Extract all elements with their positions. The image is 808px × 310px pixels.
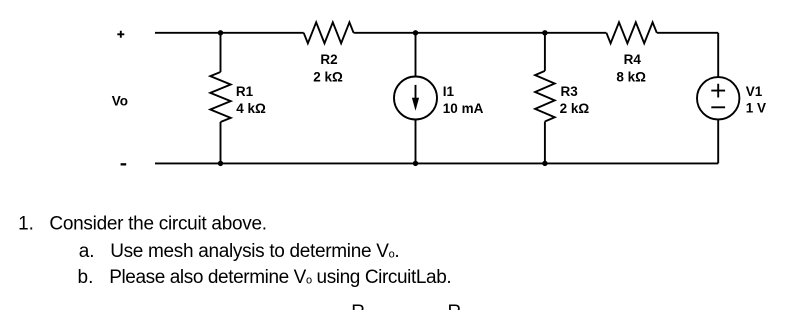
I1 arrow shaft — [415, 85, 417, 102]
junction dot I1 top — [413, 30, 418, 35]
junction dot R3 top — [542, 30, 547, 35]
junction dot R1 top — [218, 30, 223, 35]
svg-text:R: R — [448, 302, 462, 310]
svg-text:R2: R2 — [320, 52, 337, 67]
current source I1 circle — [394, 77, 437, 120]
I1 arrow head — [412, 98, 419, 111]
junction dot R1 bottom — [218, 161, 223, 166]
wire R3 top lead — [544, 33, 546, 71]
resistor R3 — [535, 71, 555, 122]
wire top-right segment — [657, 32, 718, 34]
svg-text:I1: I1 — [443, 84, 455, 99]
svg-text:Use mesh analysis to determine: Use mesh analysis to determine Vo. — [110, 241, 399, 262]
svg-text:1.: 1. — [18, 213, 34, 234]
voltage source V1 circle — [697, 77, 739, 119]
wire right vertical above V1 — [717, 33, 719, 77]
wire top-left segment — [155, 32, 304, 34]
wire I1 bottom lead — [415, 120, 417, 164]
wire right vertical below V1 — [717, 120, 719, 164]
svg-text:Vo: Vo — [112, 93, 128, 108]
junction dot R3 bottom — [542, 161, 547, 166]
V1 minus sign — [711, 106, 725, 108]
svg-text:2 kΩ: 2 kΩ — [313, 69, 343, 84]
resistor R1 — [210, 72, 230, 122]
svg-text:1 V: 1 V — [746, 101, 766, 116]
junction dot I1 bottom — [413, 161, 418, 166]
wire top-middle segment — [354, 32, 607, 34]
svg-text:R: R — [351, 302, 365, 310]
svg-text:R4: R4 — [624, 52, 642, 67]
svg-text:R3: R3 — [561, 84, 579, 99]
node minus terminal label — [121, 163, 127, 165]
svg-text:2 kΩ: 2 kΩ — [560, 101, 590, 116]
resistor R4 — [606, 22, 656, 43]
svg-text:R1: R1 — [236, 84, 254, 99]
wire R3 bottom lead — [544, 122, 546, 164]
svg-text:10 mA: 10 mA — [443, 101, 484, 116]
svg-text:8 kΩ: 8 kΩ — [616, 69, 646, 84]
wire I1 top lead — [415, 33, 417, 77]
svg-text:b.: b. — [78, 267, 94, 288]
svg-text:Consider the circuit above.: Consider the circuit above. — [49, 213, 266, 234]
V1 plus sign — [711, 84, 725, 98]
wire R1 top lead — [220, 33, 222, 72]
resistor R2 — [304, 22, 354, 43]
svg-text:4 kΩ: 4 kΩ — [236, 101, 266, 116]
wire R1 bottom lead — [220, 122, 222, 163]
node plus terminal label — [117, 31, 124, 38]
svg-text:a.: a. — [79, 241, 95, 262]
wire bottom — [155, 162, 718, 164]
svg-text:Please also determine Vo using: Please also determine Vo using CircuitLa… — [109, 267, 451, 288]
svg-text:V1: V1 — [746, 84, 763, 99]
